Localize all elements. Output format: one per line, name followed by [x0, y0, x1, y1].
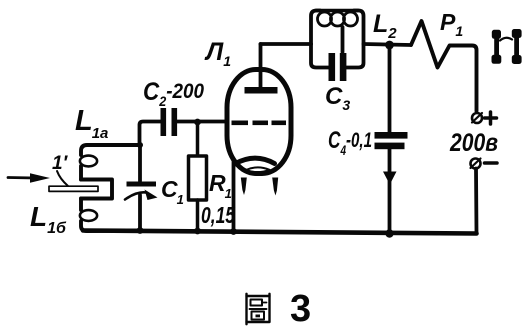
tube envelope — [227, 70, 291, 174]
junction node L2 — [385, 41, 394, 50]
wire — [79, 199, 83, 211]
svg-text:C2-200: C2-200 — [143, 78, 204, 109]
svg-text:Л1: Л1 — [204, 38, 231, 69]
headphones icon — [492, 29, 522, 64]
svg-text:R1: R1 — [209, 170, 232, 201]
svg-text:200в: 200в — [449, 129, 498, 157]
junction C1 bottom — [137, 227, 144, 234]
arrow mark on wire — [383, 172, 397, 185]
coil L1a turn — [80, 156, 97, 167]
svg-text:3: 3 — [290, 288, 311, 330]
grid dashes — [232, 121, 287, 126]
wire — [79, 166, 83, 180]
tank circuit loop left side — [311, 11, 320, 45]
capacitor C3 — [329, 27, 347, 81]
capacitor C4 — [375, 132, 408, 149]
cathode bottom lens — [246, 167, 270, 172]
anode lead — [259, 44, 263, 88]
terminal plus — [472, 113, 482, 123]
tank top edge — [316, 9, 358, 13]
tank right side — [347, 11, 364, 68]
svg-text:P1: P1 — [440, 9, 463, 39]
junction node R1 top — [194, 119, 201, 126]
coil L2 turns — [318, 12, 358, 26]
wire minus terminal to bus — [474, 169, 478, 234]
svg-text:L1a: L1a — [75, 105, 108, 142]
ground bus — [83, 231, 477, 234]
wire L2 node down to C4 — [388, 45, 392, 132]
svg-text:1′: 1′ — [52, 153, 69, 174]
junction cathode bottom — [230, 228, 237, 235]
svg-text:0,15: 0,15 — [201, 202, 236, 228]
minus sign — [485, 161, 498, 165]
capacitor C1 variable — [125, 145, 158, 231]
svg-text:C1: C1 — [161, 176, 184, 207]
headphones P1 zigzag — [411, 21, 477, 111]
svg-text:L2: L2 — [373, 10, 397, 42]
terminal minus — [471, 159, 481, 169]
wire C4 to bus — [388, 149, 392, 234]
svg-text:L1б: L1б — [30, 201, 67, 237]
svg-text:C3: C3 — [325, 83, 350, 113]
resistor R1 — [189, 122, 207, 231]
coil L1b turn — [80, 210, 97, 221]
tank bottom left segment — [311, 44, 329, 68]
input arrow — [8, 173, 50, 183]
cathode arch — [235, 158, 275, 164]
wire jog around rod — [81, 180, 112, 199]
capacitor C2 — [140, 108, 228, 145]
filament lead right — [272, 178, 278, 196]
cathode lead wire — [232, 162, 236, 232]
wire anode to tank — [261, 42, 312, 46]
coil L1a top wire — [81, 145, 140, 155]
pointer wire from 1' to rod — [57, 171, 68, 186]
plus sign — [485, 112, 497, 124]
tube anode plate — [245, 87, 278, 94]
junction R1 bottom — [194, 228, 201, 235]
wire to bottom bus — [81, 221, 140, 231]
wire tank to L2 node — [364, 44, 412, 45]
svg-text:C4-0,1: C4-0,1 — [328, 127, 372, 158]
junction C4 bottom — [385, 229, 393, 237]
junction node top of coil — [137, 142, 143, 148]
caption figure character — [247, 294, 270, 324]
ferrite rod — [49, 186, 98, 191]
filament lead left — [241, 178, 247, 196]
